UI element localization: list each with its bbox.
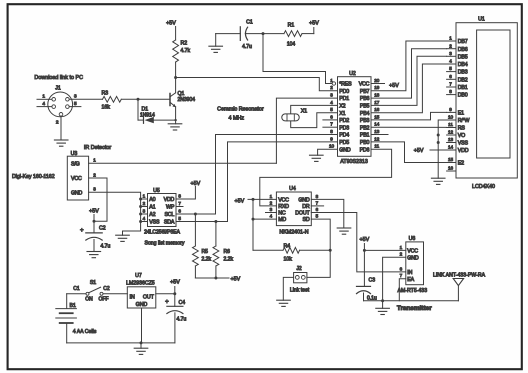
svg-text:3: 3 xyxy=(330,93,333,98)
svg-text:12: 12 xyxy=(374,136,380,141)
svg-text:VDD: VDD xyxy=(164,197,175,203)
svg-text:104: 104 xyxy=(287,41,296,47)
svg-text:LM2936CZ5: LM2936CZ5 xyxy=(126,281,155,287)
svg-text:+5V: +5V xyxy=(166,20,176,26)
svg-text:+: + xyxy=(80,227,84,234)
svg-text:X2: X2 xyxy=(339,104,345,110)
svg-text:5: 5 xyxy=(316,214,319,219)
svg-text:6: 6 xyxy=(330,114,333,119)
svg-text:SDA: SDA xyxy=(164,220,175,226)
svg-text:*RES: *RES xyxy=(339,82,352,88)
svg-text:16: 16 xyxy=(374,107,380,112)
svg-text:PD5: PD5 xyxy=(339,140,349,146)
svg-text:6: 6 xyxy=(400,266,403,271)
svg-text:PD6: PD6 xyxy=(360,147,370,153)
svg-text:RS: RS xyxy=(458,126,466,132)
svg-text:DB5: DB5 xyxy=(458,54,468,60)
svg-text:3: 3 xyxy=(93,187,96,192)
svg-text:1: 1 xyxy=(42,93,45,99)
svg-text:5: 5 xyxy=(330,107,333,112)
svg-text:R3: R3 xyxy=(102,90,109,96)
svg-text:C2: C2 xyxy=(99,225,106,231)
svg-text:8: 8 xyxy=(316,194,319,199)
svg-text:PB3: PB3 xyxy=(360,118,370,124)
svg-text:+5V: +5V xyxy=(191,181,201,187)
svg-text:OUT: OUT xyxy=(143,295,155,301)
svg-text:DB6: DB6 xyxy=(458,47,468,53)
svg-text:VSS: VSS xyxy=(149,220,160,226)
svg-text:DR: DR xyxy=(302,204,310,210)
svg-text:IR Detector: IR Detector xyxy=(84,145,111,151)
svg-text:DB2: DB2 xyxy=(458,77,468,83)
svg-text:15: 15 xyxy=(448,157,454,162)
svg-text:10k: 10k xyxy=(284,257,293,263)
svg-text:14: 14 xyxy=(374,122,380,127)
svg-text:NKM2401-N: NKM2401-N xyxy=(279,230,308,236)
svg-text:PD0: PD0 xyxy=(339,89,349,95)
svg-text:GND: GND xyxy=(71,190,83,196)
svg-text:LCD4X40: LCD4X40 xyxy=(472,184,495,190)
svg-text:PD4: PD4 xyxy=(339,133,349,139)
svg-text:E2: E2 xyxy=(458,161,464,167)
svg-text:4.7u: 4.7u xyxy=(101,243,111,249)
svg-text:DOUT: DOUT xyxy=(295,211,310,217)
svg-text:3: 3 xyxy=(74,93,77,99)
svg-text:D1: D1 xyxy=(142,106,149,112)
svg-text:19: 19 xyxy=(374,85,380,90)
svg-text:J2: J2 xyxy=(296,266,302,272)
svg-text:X1: X1 xyxy=(339,111,345,117)
svg-text:PB1: PB1 xyxy=(360,133,370,139)
svg-text:8: 8 xyxy=(330,129,333,134)
svg-text:3: 3 xyxy=(449,51,452,56)
svg-text:U5: U5 xyxy=(153,188,160,194)
svg-text:3: 3 xyxy=(143,208,146,213)
svg-text:+5V: +5V xyxy=(170,279,180,285)
svg-text:8: 8 xyxy=(178,193,181,198)
svg-text:SD: SD xyxy=(303,217,310,223)
svg-text:11: 11 xyxy=(374,144,379,149)
svg-text:1: 1 xyxy=(93,158,96,163)
svg-text:14: 14 xyxy=(448,145,454,150)
svg-text:U4: U4 xyxy=(289,186,296,192)
svg-text:R/*W: R/*W xyxy=(458,118,470,124)
svg-text:24LC256I/P8EA: 24LC256I/P8EA xyxy=(144,230,181,236)
svg-text:PB6: PB6 xyxy=(360,96,370,102)
svg-text:6: 6 xyxy=(178,208,181,213)
svg-text:DB0: DB0 xyxy=(458,93,468,99)
svg-text:C1: C1 xyxy=(73,286,80,292)
svg-text:4.7u: 4.7u xyxy=(242,44,252,50)
svg-text:2.2k: 2.2k xyxy=(224,256,234,262)
svg-text:+5V: +5V xyxy=(235,199,245,205)
svg-text:2: 2 xyxy=(400,252,403,257)
svg-text:X1: X1 xyxy=(301,109,307,115)
svg-text:+5V: +5V xyxy=(89,209,99,215)
svg-text:5: 5 xyxy=(449,66,452,71)
svg-text:B1: B1 xyxy=(70,303,76,309)
svg-text:ON: ON xyxy=(85,297,93,303)
svg-text:20: 20 xyxy=(374,78,380,83)
svg-text:2: 2 xyxy=(143,201,146,206)
svg-text:2: 2 xyxy=(449,43,452,48)
svg-text:4 MHz: 4 MHz xyxy=(229,115,245,121)
svg-text:R2: R2 xyxy=(181,40,188,46)
svg-text:7: 7 xyxy=(178,201,181,206)
svg-text:PB5: PB5 xyxy=(360,104,370,110)
svg-text:PD2: PD2 xyxy=(339,118,349,124)
svg-text:AM-RT5-433: AM-RT5-433 xyxy=(397,288,427,294)
svg-text:PD1: PD1 xyxy=(339,96,349,102)
svg-text:PD3: PD3 xyxy=(339,125,349,131)
svg-text:+5V: +5V xyxy=(309,21,319,27)
svg-text:1: 1 xyxy=(330,78,333,83)
svg-text:U6: U6 xyxy=(409,236,416,242)
svg-text:DB1: DB1 xyxy=(458,85,468,91)
svg-text:+5V: +5V xyxy=(231,276,241,282)
svg-text:VCC: VCC xyxy=(71,176,82,182)
svg-text:PB0: PB0 xyxy=(360,140,370,146)
svg-text:E1: E1 xyxy=(458,111,464,117)
svg-text:U1: U1 xyxy=(478,17,485,23)
svg-text:VCC: VCC xyxy=(407,249,418,255)
svg-text:NC: NC xyxy=(278,211,286,217)
svg-text:1: 1 xyxy=(449,36,452,41)
svg-text:Digi-Key 160-1162: Digi-Key 160-1162 xyxy=(12,174,55,180)
svg-text:A0: A0 xyxy=(149,197,155,203)
svg-text:PB4: PB4 xyxy=(360,111,370,117)
svg-text:C4: C4 xyxy=(179,300,186,306)
svg-text:DB4: DB4 xyxy=(458,62,468,68)
svg-text:VSS: VSS xyxy=(458,141,469,147)
svg-text:WP: WP xyxy=(166,205,175,211)
svg-text:10: 10 xyxy=(329,144,335,149)
svg-text:4 AA Cells: 4 AA Cells xyxy=(73,329,97,335)
svg-text:AT90S2313: AT90S2313 xyxy=(340,159,368,165)
svg-text:10: 10 xyxy=(448,115,454,120)
svg-text:9: 9 xyxy=(330,136,333,141)
svg-text:4: 4 xyxy=(270,214,273,219)
svg-text:+: + xyxy=(165,299,169,306)
svg-text:S/G: S/G xyxy=(71,161,80,167)
svg-text:13: 13 xyxy=(448,137,454,142)
svg-text:2: 2 xyxy=(56,119,59,125)
svg-text:EA: EA xyxy=(407,277,414,283)
svg-text:4: 4 xyxy=(42,101,45,107)
svg-text:4: 4 xyxy=(143,216,146,221)
svg-text:PB7: PB7 xyxy=(360,89,370,95)
svg-text:4: 4 xyxy=(330,100,333,105)
svg-text:8: 8 xyxy=(449,89,452,94)
svg-text:Ceramic Resonator: Ceramic Resonator xyxy=(217,106,264,112)
svg-text:7: 7 xyxy=(449,82,452,87)
svg-text:2: 2 xyxy=(93,172,96,177)
svg-text:Transmitter: Transmitter xyxy=(397,305,432,312)
svg-text:4.7u: 4.7u xyxy=(177,316,187,322)
svg-text:S1: S1 xyxy=(90,280,96,286)
svg-text:4: 4 xyxy=(449,59,452,64)
svg-text:J1: J1 xyxy=(55,86,61,92)
svg-text:1: 1 xyxy=(400,245,403,250)
svg-text:RXD: RXD xyxy=(278,204,289,210)
svg-text:2.2k: 2.2k xyxy=(202,256,212,262)
svg-text:18: 18 xyxy=(374,93,380,98)
svg-text:C2: C2 xyxy=(103,286,110,292)
svg-text:OFF: OFF xyxy=(99,297,109,303)
svg-text:11: 11 xyxy=(448,122,453,127)
svg-text:17: 17 xyxy=(374,100,380,105)
svg-text:IN: IN xyxy=(130,295,135,301)
svg-text:Link test: Link test xyxy=(290,288,310,294)
svg-text:5: 5 xyxy=(178,216,181,221)
svg-text:5: 5 xyxy=(74,101,77,107)
svg-text:7: 7 xyxy=(400,273,403,278)
svg-text:A2: A2 xyxy=(149,212,155,218)
svg-text:C1: C1 xyxy=(246,19,253,25)
svg-text:GND: GND xyxy=(407,255,419,261)
svg-text:IN: IN xyxy=(407,270,412,276)
svg-text:PB2: PB2 xyxy=(360,125,370,131)
svg-text:U2: U2 xyxy=(349,71,356,77)
svg-text:R6: R6 xyxy=(224,249,231,255)
svg-text:R5: R5 xyxy=(202,249,209,255)
svg-text:1: 1 xyxy=(143,193,146,198)
svg-text:+5V: +5V xyxy=(389,83,399,89)
svg-text:4.7k: 4.7k xyxy=(181,48,191,54)
svg-text:GND: GND xyxy=(136,302,148,308)
svg-text:9: 9 xyxy=(449,107,452,112)
svg-text:13: 13 xyxy=(374,129,380,134)
svg-text:VCC: VCC xyxy=(359,82,370,88)
svg-text:VO: VO xyxy=(458,133,465,139)
svg-text:R4: R4 xyxy=(284,243,291,249)
svg-text:3: 3 xyxy=(270,207,273,212)
svg-text:Song list memory: Song list memory xyxy=(144,240,184,246)
svg-text:DB7: DB7 xyxy=(458,39,468,45)
svg-text:12: 12 xyxy=(448,130,454,135)
svg-text:U7: U7 xyxy=(135,273,142,279)
svg-text:R1: R1 xyxy=(288,22,295,28)
svg-text:1: 1 xyxy=(270,194,273,199)
svg-text:VCC: VCC xyxy=(278,198,289,204)
svg-text:DB3: DB3 xyxy=(458,70,468,76)
svg-text:+5V: +5V xyxy=(360,237,370,243)
svg-text:SCL: SCL xyxy=(164,212,174,218)
svg-text:LINK ANT-433-PW-RA: LINK ANT-433-PW-RA xyxy=(433,272,486,278)
svg-text:7: 7 xyxy=(316,200,319,205)
svg-text:1N914: 1N914 xyxy=(140,113,155,119)
svg-text:GND: GND xyxy=(339,147,351,153)
svg-text:C3: C3 xyxy=(369,277,376,283)
svg-text:MD: MD xyxy=(278,217,286,223)
svg-text:15: 15 xyxy=(374,114,380,119)
svg-text:Download link to PC: Download link to PC xyxy=(34,75,83,81)
svg-text:2N3904: 2N3904 xyxy=(178,97,196,103)
svg-text:GND: GND xyxy=(298,198,310,204)
svg-text:+5V: +5V xyxy=(414,148,424,154)
svg-text:A1: A1 xyxy=(149,205,155,211)
svg-text:7: 7 xyxy=(330,122,333,127)
svg-text:16k: 16k xyxy=(102,105,111,111)
svg-text:6: 6 xyxy=(449,74,452,79)
svg-text:16: 16 xyxy=(448,166,454,171)
svg-text:VDD: VDD xyxy=(458,148,469,154)
svg-text:2: 2 xyxy=(270,200,273,205)
svg-text:2: 2 xyxy=(330,85,333,90)
svg-text:6: 6 xyxy=(316,207,319,212)
